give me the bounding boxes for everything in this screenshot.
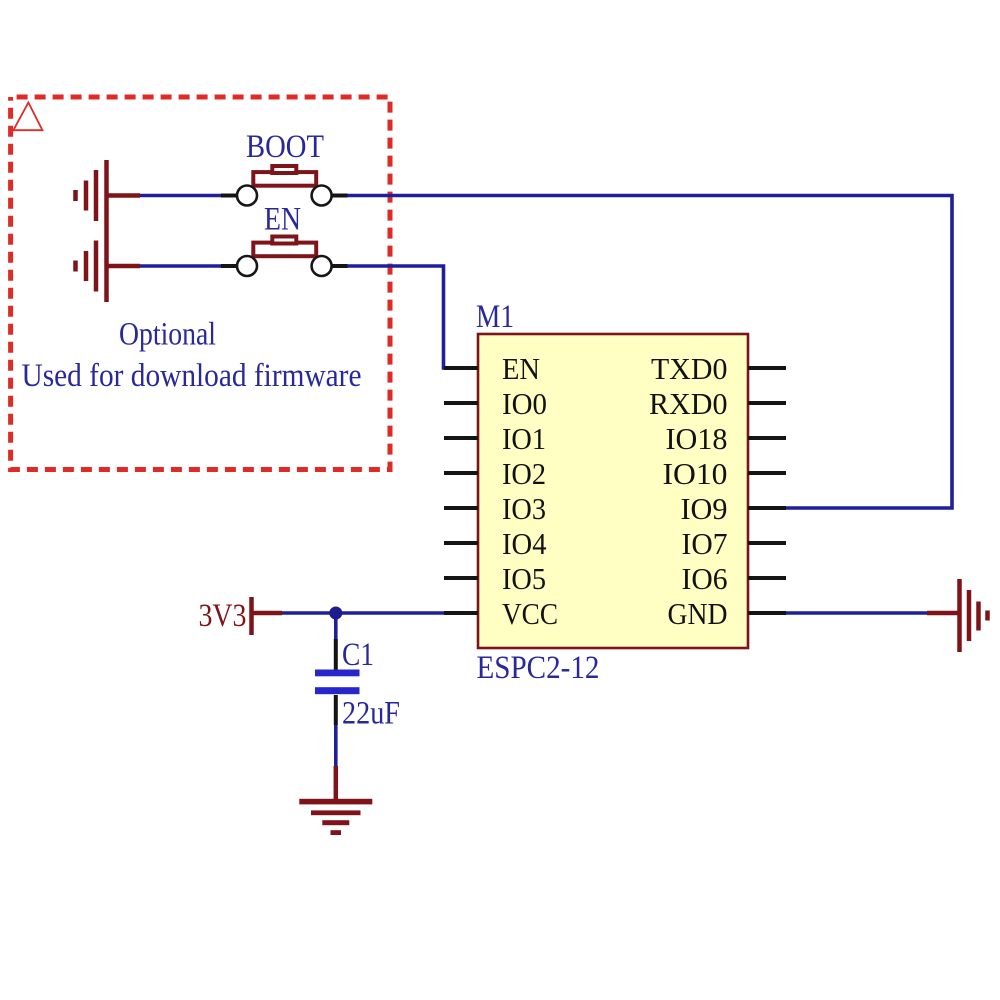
svg-text:IO18: IO18 xyxy=(666,421,728,456)
svg-text:IO7: IO7 xyxy=(682,526,728,561)
svg-text:IO10: IO10 xyxy=(663,456,728,491)
svg-text:IO4: IO4 xyxy=(502,526,547,561)
svg-text:22uF: 22uF xyxy=(342,696,400,732)
svg-text:RXD0: RXD0 xyxy=(649,386,728,421)
svg-text:IO0: IO0 xyxy=(502,386,547,421)
svg-text:IO3: IO3 xyxy=(502,491,546,526)
svg-text:3V3: 3V3 xyxy=(199,598,247,634)
svg-text:IO2: IO2 xyxy=(502,456,546,491)
svg-text:IO6: IO6 xyxy=(682,561,728,596)
svg-text:BOOT: BOOT xyxy=(246,129,324,165)
svg-text:VCC: VCC xyxy=(502,596,558,631)
svg-text:EN: EN xyxy=(502,351,540,386)
svg-text:EN: EN xyxy=(264,202,301,238)
svg-text:ESPC2-12: ESPC2-12 xyxy=(477,650,600,686)
svg-text:IO1: IO1 xyxy=(502,421,546,456)
svg-text:TXD0: TXD0 xyxy=(651,351,728,386)
svg-text:Used for download firmware: Used for download firmware xyxy=(22,358,362,394)
svg-text:GND: GND xyxy=(668,596,728,631)
svg-text:IO9: IO9 xyxy=(681,491,728,526)
svg-text:M1: M1 xyxy=(476,299,514,335)
svg-text:C1: C1 xyxy=(342,637,374,673)
svg-text:IO5: IO5 xyxy=(502,561,546,596)
svg-text:Optional: Optional xyxy=(119,317,216,353)
